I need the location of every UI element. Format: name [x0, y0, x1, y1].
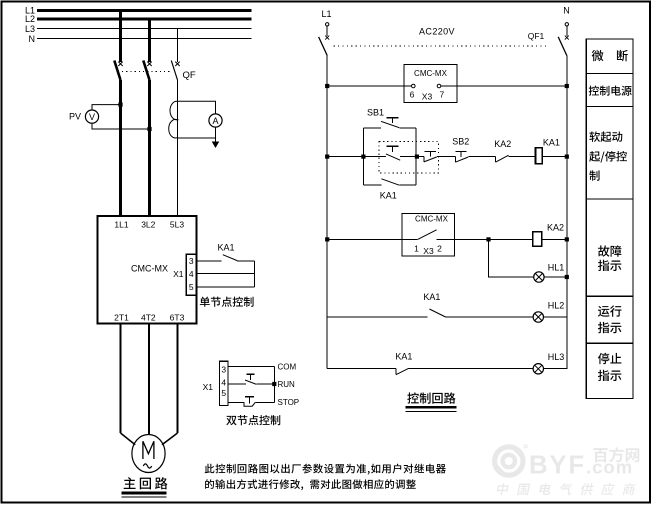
label dual-node control — [226, 415, 280, 425]
svg-text:KA2: KA2 — [494, 139, 511, 149]
wire drop phase A lower — [119, 80, 122, 216]
ctrl L1 label — [321, 9, 331, 19]
svg-text:CMC-MX: CMC-MX — [414, 69, 448, 78]
starter box X3 1-2 — [402, 214, 455, 256]
wire rung3 c — [489, 238, 533, 240]
breaker QF pole 2 contact x — [147, 62, 151, 66]
svg-text:2: 2 — [437, 244, 442, 254]
soft starter U1 name — [131, 264, 168, 274]
wire pin3 — [196, 260, 221, 262]
legend text yunxing — [598, 305, 621, 316]
wire rung2 e — [509, 156, 536, 158]
legend text kongzhidianyuan — [589, 86, 632, 96]
svg-text:N: N — [563, 6, 570, 16]
wire drop phase C — [177, 29, 179, 63]
svg-text:BYF: BYF — [529, 452, 586, 480]
legend text zhishi3 — [598, 370, 621, 381]
terminal 1L1 label — [114, 220, 128, 230]
wire HL1 right — [544, 276, 567, 278]
svg-text:KA1: KA1 — [217, 243, 234, 253]
ctrl N arrowhead — [565, 36, 569, 40]
svg-text:X1: X1 — [203, 382, 214, 392]
ctrl L1 arrowhead — [325, 36, 329, 40]
wire motor lead B — [148, 324, 150, 436]
pushbutton RUN actuator — [246, 374, 254, 379]
wire SB1 right — [399, 127, 416, 129]
wire motor lead A slant — [121, 433, 136, 445]
pushbutton SB1 actuator — [387, 118, 399, 124]
lamp HL2 — [533, 312, 543, 322]
relay contact KA1 label — [217, 243, 234, 253]
ctrl L1 arrow — [326, 26, 328, 36]
label single-node control — [200, 297, 254, 307]
breaker QF pole 3 contact x — [175, 62, 179, 66]
ctrl right bus — [566, 56, 568, 370]
svg-text:CMC-MX: CMC-MX — [415, 215, 449, 224]
wire rung3 b — [437, 238, 489, 240]
pin 3 dual label — [221, 364, 226, 374]
wire drop phase A — [119, 11, 122, 63]
svg-text:HL2: HL2 — [548, 301, 565, 311]
wire pin3 right — [237, 260, 254, 262]
wire mid left — [363, 156, 386, 158]
relay contact KA1 run label — [423, 292, 440, 302]
svg-text:KA1: KA1 — [423, 292, 440, 302]
lamp HL3 label — [548, 352, 565, 362]
legend text ruanqidong — [589, 131, 622, 142]
STOP label — [278, 398, 300, 407]
svg-text:3: 3 — [189, 256, 194, 266]
wire drop phase B lower — [148, 80, 151, 216]
node branch left — [361, 155, 365, 159]
lamp HL3 — [533, 364, 543, 374]
wire KA1 hold right — [399, 184, 416, 186]
breaker QF linkage dotted — [122, 71, 172, 73]
wire rung4 b — [446, 316, 533, 318]
node PV-phaseA — [118, 103, 122, 107]
linkage dashed box — [379, 142, 438, 173]
voltmeter PV label — [69, 112, 81, 122]
legend text zhishi2 — [598, 322, 621, 333]
ammeter A circle — [209, 114, 222, 127]
relay coil KA1 label — [543, 138, 560, 148]
watermark cn supplier — [496, 483, 636, 495]
legend text zhishi1 — [598, 260, 621, 271]
branch right rail — [415, 128, 417, 185]
voltmeter PV circle — [85, 110, 98, 123]
breaker QF label — [183, 70, 196, 81]
wire pin4 — [196, 273, 254, 275]
pushbutton STOP actuator — [245, 397, 254, 404]
contact SB2 tick — [454, 157, 456, 163]
wire PV bottom — [92, 123, 150, 129]
pin 3 label — [189, 256, 194, 266]
bus L1 — [37, 9, 252, 12]
svg-text:PV: PV — [69, 112, 81, 122]
contact KA1 run blade — [429, 309, 445, 317]
breaker QF pole 2 blade — [143, 61, 149, 81]
ground arrow — [212, 142, 220, 149]
terminal 6 label — [410, 90, 415, 100]
legend column box — [586, 39, 633, 398]
svg-text:L2: L2 — [25, 14, 35, 24]
svg-text:RUN: RUN — [278, 380, 296, 389]
svg-text:QF1: QF1 — [528, 31, 545, 41]
pushbutton RUN blade — [245, 380, 256, 384]
svg-text:SB1: SB1 — [367, 108, 384, 118]
breaker QF pole 1 contact x — [118, 62, 122, 66]
pushbutton STOP blade — [244, 402, 255, 406]
wire motor lead A — [120, 324, 122, 434]
wire motor lead C slant — [162, 433, 178, 445]
lamp HL1 — [534, 272, 544, 282]
node rung3 right — [565, 237, 569, 241]
breaker QF pole 3 blade — [171, 61, 177, 81]
relay coil KA1 — [536, 148, 543, 164]
wire COM — [228, 366, 274, 368]
wire rung4 c — [544, 316, 567, 318]
AC220V label — [419, 27, 455, 37]
wire rung5 a — [327, 367, 396, 369]
bus N label — [29, 34, 36, 44]
motor M circle — [132, 435, 165, 473]
watermark baifangwang — [593, 447, 639, 462]
wire drop phase B — [148, 19, 151, 62]
svg-text:HL1: HL1 — [548, 263, 565, 273]
soft starter U1 box — [98, 216, 197, 324]
breaker QF1 pole L blade — [319, 37, 328, 56]
terminal 2 label — [437, 244, 442, 254]
contact KA1 stop tick — [395, 368, 397, 374]
wire rung5 c — [544, 367, 567, 369]
motor tilde — [143, 464, 151, 468]
connector X3 label a — [422, 92, 433, 102]
svg-text:KA1: KA1 — [543, 138, 560, 148]
svg-text:KA1: KA1 — [395, 352, 412, 362]
svg-text:CMC-MX: CMC-MX — [131, 264, 168, 274]
svg-text:V: V — [89, 112, 95, 122]
legend divider 5 — [586, 342, 633, 344]
contact KA1 stop blade — [396, 368, 409, 374]
svg-text:.com: .com — [586, 457, 633, 478]
bus L3 label — [25, 24, 35, 34]
pin 5 label — [189, 282, 194, 292]
wire STOP right — [255, 401, 274, 403]
pushbutton SB2 actuator — [455, 152, 466, 157]
wire rung3 d — [542, 238, 567, 240]
svg-text:5: 5 — [189, 282, 194, 292]
legend text guzhang — [598, 245, 621, 256]
svg-text:X3: X3 — [422, 92, 433, 102]
terminal 2T1 label — [114, 312, 129, 322]
pin 4 dual label — [221, 378, 226, 388]
legend divider 4 — [586, 295, 633, 297]
wire drop phase C lower — [177, 80, 179, 216]
breaker QF1 linkage dotted — [334, 45, 549, 47]
legend divider 3 — [586, 198, 633, 200]
ctrl N terminal — [565, 23, 568, 26]
RUN label — [278, 380, 296, 389]
wire rung2 d — [468, 156, 495, 158]
contact KA2 blade — [496, 155, 509, 162]
contact KA2 tick — [495, 157, 497, 163]
wire COM-STOP vertical — [273, 367, 275, 403]
terminal 6T3 label — [170, 312, 185, 322]
starter box X3 6-7 — [404, 65, 457, 103]
contact KA1 blade single-node — [223, 255, 237, 261]
svg-text:HL3: HL3 — [548, 352, 565, 362]
starter box1 name — [414, 69, 448, 78]
CT primary bumps — [169, 101, 178, 138]
svg-text:A: A — [212, 116, 218, 126]
legend text weiduan — [592, 50, 628, 61]
lamp HL1 label — [548, 263, 565, 273]
node branch right — [415, 155, 419, 159]
node rung3 left — [325, 237, 329, 241]
relay contact KA1 stop label — [395, 352, 412, 362]
wire PV top — [92, 105, 121, 110]
svg-text:3L2: 3L2 — [141, 220, 155, 230]
wire rung1 right — [441, 85, 567, 87]
terminal 4T2 label — [141, 312, 156, 322]
bus L1 label — [25, 6, 35, 16]
svg-text:X3: X3 — [423, 246, 434, 256]
svg-text:5: 5 — [221, 388, 226, 398]
connector X1 dual pin box — [220, 361, 229, 405]
svg-text:KA1: KA1 — [380, 191, 397, 201]
node rung3 mid — [486, 237, 490, 241]
contact KA1 hold blade — [381, 179, 399, 185]
wire rung3 a — [327, 238, 418, 240]
breaker QF1 pole N blade — [558, 37, 567, 56]
SB1 label — [367, 108, 384, 118]
pushbutton SB1c actuator — [425, 152, 436, 157]
node PV-phaseB — [147, 127, 151, 131]
svg-text:L1: L1 — [321, 9, 331, 19]
svg-text:5L3: 5L3 — [170, 220, 184, 230]
terminal 1 label — [414, 244, 419, 254]
bus L2 — [37, 18, 252, 21]
svg-text:4T2: 4T2 — [141, 312, 156, 322]
pin 5 dual label — [221, 388, 226, 398]
svg-text:COM: COM — [278, 362, 297, 371]
watermark logo swirl — [495, 447, 524, 475]
wire link vertical — [254, 261, 256, 287]
terminal 3L2 label — [141, 220, 155, 230]
bus L3 — [37, 28, 252, 30]
wire RUN right — [256, 383, 274, 385]
svg-text:6: 6 — [410, 90, 415, 100]
wire rung2 b — [417, 156, 424, 158]
contact SB1c blade — [424, 157, 437, 162]
wire CT secondary top — [178, 101, 216, 114]
wire rung5 b — [409, 367, 534, 369]
label main loop — [124, 477, 168, 489]
wire HL1 branch — [489, 239, 534, 277]
legend text tingzhi — [598, 353, 621, 364]
wire rung2 f — [542, 156, 566, 158]
wire KA1 hold left — [363, 184, 381, 186]
pushbutton SB1b blade — [386, 154, 400, 160]
contact X3 blade — [418, 230, 437, 240]
wire pin5 — [196, 286, 254, 288]
watermark BYF text — [529, 452, 586, 480]
starter box3 name — [415, 215, 449, 224]
svg-text:KA2: KA2 — [547, 223, 564, 233]
svg-text:1L1: 1L1 — [114, 220, 128, 230]
watermark .com text — [586, 457, 633, 478]
node rung1 left — [325, 84, 329, 88]
terminal 7 label — [440, 90, 445, 100]
watermark tm dot — [524, 445, 527, 448]
legend divider 1 — [586, 72, 633, 74]
wire rung4 a — [327, 316, 427, 318]
relay coil KA2 label — [547, 223, 564, 233]
connector X1 label — [173, 269, 184, 279]
connector X3 label b — [423, 246, 434, 256]
relay contact KA2 label — [494, 139, 511, 149]
ctrl left bus — [326, 56, 328, 369]
wire SB1 left — [363, 127, 381, 129]
bus N — [37, 38, 252, 40]
svg-text:STOP: STOP — [278, 398, 300, 407]
breaker QF pole 1 blade — [114, 61, 120, 81]
note line 2 — [205, 479, 416, 490]
wire mid right — [400, 156, 417, 158]
pin 4 label — [189, 269, 194, 279]
svg-text:N: N — [29, 34, 36, 44]
node rung2 right — [565, 155, 569, 159]
note line 1 — [205, 464, 446, 475]
wire motor lead C — [177, 324, 179, 434]
connector X1 dual label — [203, 382, 214, 392]
contact SB1c tick — [423, 157, 425, 162]
branch left rail — [362, 128, 364, 185]
motor M letter — [143, 441, 154, 459]
breaker QF1 label — [528, 31, 545, 41]
relay contact KA1 hold label — [380, 191, 397, 201]
wire STOP left — [228, 401, 244, 403]
terminal 6 circle — [412, 84, 416, 88]
svg-text:AC220V: AC220V — [419, 27, 455, 37]
svg-text:1: 1 — [414, 244, 419, 254]
node HL1 right — [565, 275, 569, 279]
svg-text:4: 4 — [221, 378, 226, 388]
wire rung2 c — [437, 156, 455, 158]
wire ammeter drain — [215, 127, 217, 143]
node rung1 right — [565, 84, 569, 88]
wire rung1 left — [327, 85, 411, 87]
ctrl N arrow — [566, 26, 568, 36]
relay coil KA2 — [533, 232, 542, 247]
wire CT secondary bottom — [178, 137, 216, 139]
control loop underline thin — [406, 410, 457, 412]
svg-text:X1: X1 — [173, 269, 184, 279]
svg-text:7: 7 — [440, 90, 445, 100]
SB2 label — [452, 137, 469, 147]
watermark logo ring — [495, 447, 523, 475]
svg-text:QF: QF — [183, 70, 196, 81]
node rung2 left — [325, 155, 329, 159]
bus L2 label — [25, 14, 35, 24]
wire RUN left — [228, 383, 246, 385]
lamp HL2 label — [548, 301, 565, 311]
connector X1 pin box — [186, 254, 196, 295]
control loop underline thick — [406, 406, 457, 408]
legend text qitingkong — [589, 151, 627, 163]
contact SB2 blade — [455, 157, 468, 162]
label control loop — [407, 392, 455, 403]
legend divider 2 — [586, 106, 633, 108]
svg-text:3: 3 — [221, 364, 226, 374]
terminal 7 circle — [437, 84, 441, 88]
ctrl L1 terminal — [326, 23, 329, 26]
node RUN — [272, 382, 276, 386]
svg-text:L3: L3 — [25, 24, 35, 34]
main loop underline thin — [122, 496, 167, 498]
ctrl N label — [563, 6, 570, 16]
pushbutton SB1 blade — [381, 121, 399, 127]
COM label — [278, 362, 297, 371]
wire rung4 tee — [0, 0, 1, 1]
legend text zhi — [589, 170, 599, 180]
pushbutton SB1b actuator — [387, 146, 399, 152]
svg-text:SB2: SB2 — [452, 137, 469, 147]
wire rung2 a — [327, 156, 363, 158]
svg-text:4: 4 — [189, 269, 194, 279]
main loop underline thick — [122, 492, 167, 495]
svg-text:6T3: 6T3 — [170, 312, 185, 322]
svg-text:2T1: 2T1 — [114, 312, 129, 322]
terminal 5L3 label — [170, 220, 184, 230]
